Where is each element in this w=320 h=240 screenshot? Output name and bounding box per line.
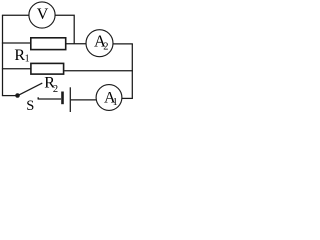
ammeter A2 <box>86 30 113 57</box>
wire R1 to A2 <box>66 43 87 45</box>
wire A1 to right bus <box>122 97 133 99</box>
wire bus to R1 <box>2 42 31 44</box>
ammeter A1 <box>96 85 122 111</box>
svg-text:2: 2 <box>103 42 108 53</box>
battery negative plate (short thick) <box>61 92 64 105</box>
rheostat R2 rectangle <box>31 63 64 74</box>
switch S blade <box>19 83 43 95</box>
svg-text:1: 1 <box>25 54 30 65</box>
wire A2 to right bus <box>113 43 133 45</box>
svg-text:S: S <box>26 98 34 114</box>
resistor R1 <box>31 38 66 50</box>
wire bus to switch node <box>2 95 17 97</box>
left bus <box>2 15 4 95</box>
svg-text:2: 2 <box>53 84 58 95</box>
wire contact to battery <box>38 98 61 100</box>
wire battery to A1 <box>71 99 97 101</box>
wire bus to R2 <box>2 68 31 70</box>
wire R2 to right bus <box>64 70 133 72</box>
wire voltmeter to corner <box>55 15 74 44</box>
right bus <box>131 44 133 99</box>
wire top-left to voltmeter <box>2 14 29 16</box>
svg-text:1: 1 <box>113 97 118 108</box>
switch node dot <box>15 93 20 98</box>
svg-text:V: V <box>37 6 49 23</box>
battery positive plate (long thin) <box>69 87 71 112</box>
voltmeter V <box>29 2 55 28</box>
switch fixed contact tick <box>37 97 39 99</box>
